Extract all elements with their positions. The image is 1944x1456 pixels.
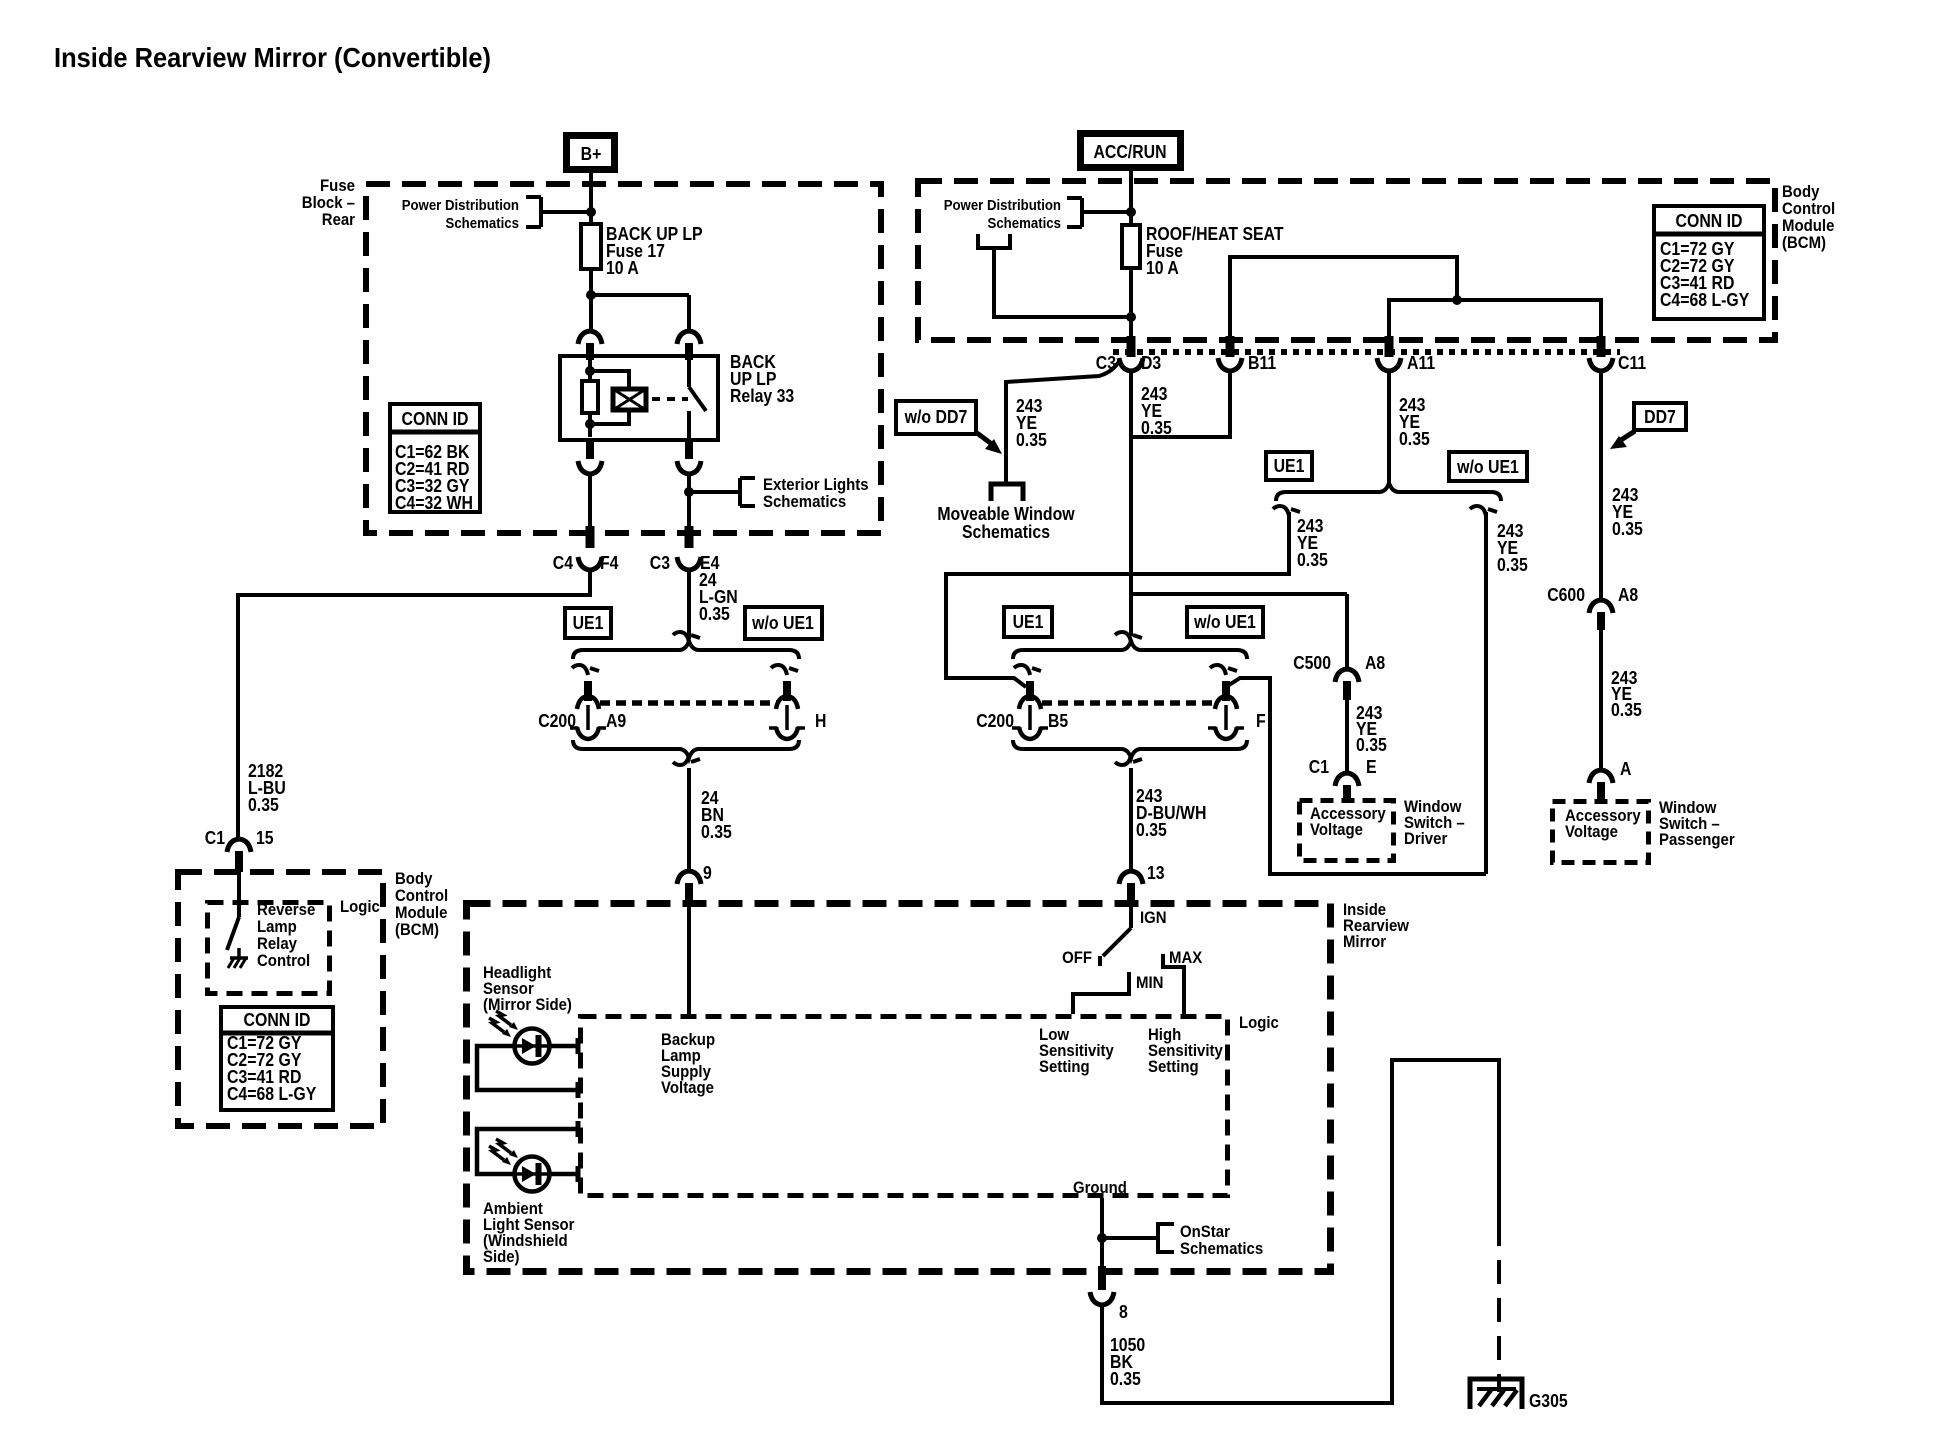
- svg-text:MIN: MIN: [1136, 973, 1164, 992]
- svg-text:8: 8: [1119, 1302, 1128, 1322]
- svg-text:0.35: 0.35: [1356, 735, 1387, 755]
- svg-text:Logic: Logic: [1239, 1013, 1279, 1032]
- svg-text:F: F: [1256, 711, 1266, 731]
- svg-text:CONN ID: CONN ID: [402, 409, 469, 429]
- svg-text:DD7: DD7: [1644, 407, 1676, 427]
- svg-text:E: E: [1366, 757, 1377, 777]
- svg-text:B11: B11: [1248, 353, 1276, 373]
- svg-text:Setting: Setting: [1148, 1057, 1199, 1076]
- svg-text:C200: C200: [976, 711, 1014, 731]
- svg-text:0.35: 0.35: [1016, 430, 1047, 450]
- svg-text:H: H: [815, 711, 826, 731]
- svg-text:CONN ID: CONN ID: [1676, 211, 1743, 231]
- svg-text:0.35: 0.35: [1297, 550, 1328, 570]
- svg-text:C200: C200: [538, 711, 576, 731]
- svg-text:Inside Rearview Mirror (Conver: Inside Rearview Mirror (Convertible): [54, 42, 491, 73]
- svg-text:15: 15: [256, 828, 274, 848]
- svg-text:UE1: UE1: [573, 613, 604, 633]
- svg-text:0.35: 0.35: [701, 822, 732, 842]
- svg-text:Schematics: Schematics: [1180, 1239, 1263, 1258]
- svg-text:C500: C500: [1293, 653, 1331, 673]
- svg-text:Schematics: Schematics: [962, 522, 1050, 542]
- svg-text:0.35: 0.35: [1141, 418, 1172, 438]
- svg-text:G305: G305: [1529, 1391, 1568, 1411]
- svg-text:Logic: Logic: [340, 897, 380, 916]
- svg-text:0.35: 0.35: [1612, 519, 1643, 539]
- svg-text:A9: A9: [606, 711, 626, 731]
- svg-text:B5: B5: [1048, 711, 1068, 731]
- svg-text:Voltage: Voltage: [1565, 822, 1618, 841]
- svg-text:Schematics: Schematics: [763, 492, 846, 511]
- svg-text:Setting: Setting: [1039, 1057, 1090, 1076]
- svg-text:B+: B+: [581, 144, 602, 164]
- svg-text:(BCM): (BCM): [395, 920, 439, 939]
- svg-text:Moveable Window: Moveable Window: [937, 504, 1075, 524]
- svg-text:OFF: OFF: [1062, 948, 1092, 967]
- svg-text:w/o DD7: w/o DD7: [904, 407, 968, 427]
- svg-text:0.35: 0.35: [1497, 555, 1528, 575]
- svg-text:Ground: Ground: [1073, 1178, 1127, 1197]
- svg-text:w/o UE1: w/o UE1: [1193, 612, 1256, 632]
- svg-text:0.35: 0.35: [1136, 820, 1167, 840]
- svg-text:Control: Control: [257, 951, 310, 970]
- svg-text:A8: A8: [1618, 585, 1638, 605]
- svg-text:Power Distribution: Power Distribution: [944, 197, 1061, 214]
- svg-text:Passenger: Passenger: [1659, 830, 1735, 849]
- svg-text:Schematics: Schematics: [988, 215, 1062, 232]
- svg-text:C600: C600: [1547, 585, 1585, 605]
- svg-text:A: A: [1620, 759, 1631, 779]
- svg-text:0.35: 0.35: [1399, 429, 1430, 449]
- svg-text:CONN ID: CONN ID: [244, 1010, 311, 1030]
- svg-text:0.35: 0.35: [699, 604, 730, 624]
- svg-text:10 A: 10 A: [606, 258, 639, 278]
- svg-text:C4: C4: [553, 553, 573, 573]
- svg-text:Side): Side): [483, 1247, 520, 1266]
- svg-text:0.35: 0.35: [248, 795, 279, 815]
- svg-text:Driver: Driver: [1404, 829, 1448, 848]
- svg-text:UE1: UE1: [1274, 456, 1305, 476]
- svg-text:0.35: 0.35: [1110, 1369, 1141, 1389]
- svg-text:IGN: IGN: [1140, 908, 1167, 927]
- svg-text:Schematics: Schematics: [446, 215, 520, 232]
- svg-text:C1: C1: [1309, 757, 1329, 777]
- svg-text:w/o UE1: w/o UE1: [1456, 457, 1519, 477]
- svg-text:w/o UE1: w/o UE1: [751, 613, 814, 633]
- svg-text:Relay 33: Relay 33: [730, 386, 794, 406]
- svg-text:Voltage: Voltage: [661, 1078, 714, 1097]
- svg-text:C4=68 L-GY: C4=68 L-GY: [227, 1084, 316, 1104]
- svg-text:9: 9: [703, 863, 712, 883]
- svg-text:10 A: 10 A: [1146, 258, 1179, 278]
- svg-text:F4: F4: [600, 553, 619, 573]
- svg-text:ACC/RUN: ACC/RUN: [1094, 142, 1167, 162]
- svg-text:C4=68 L-GY: C4=68 L-GY: [1660, 290, 1749, 310]
- svg-text:(BCM): (BCM): [1782, 233, 1826, 252]
- svg-text:Mirror: Mirror: [1343, 932, 1386, 951]
- svg-text:Rear: Rear: [322, 210, 356, 229]
- svg-text:A8: A8: [1365, 653, 1385, 673]
- svg-text:UE1: UE1: [1013, 612, 1044, 632]
- svg-text:C3: C3: [650, 553, 670, 573]
- svg-text:A11: A11: [1407, 353, 1435, 373]
- svg-text:D3: D3: [1141, 353, 1161, 373]
- svg-text:MAX: MAX: [1169, 948, 1203, 967]
- svg-text:Voltage: Voltage: [1310, 820, 1363, 839]
- svg-text:0.35: 0.35: [1611, 700, 1642, 720]
- svg-text:C1: C1: [205, 828, 225, 848]
- svg-text:C4=32 WH: C4=32 WH: [395, 493, 473, 513]
- svg-text:13: 13: [1147, 863, 1165, 883]
- svg-text:Power Distribution: Power Distribution: [402, 197, 519, 214]
- svg-text:C11: C11: [1618, 353, 1646, 373]
